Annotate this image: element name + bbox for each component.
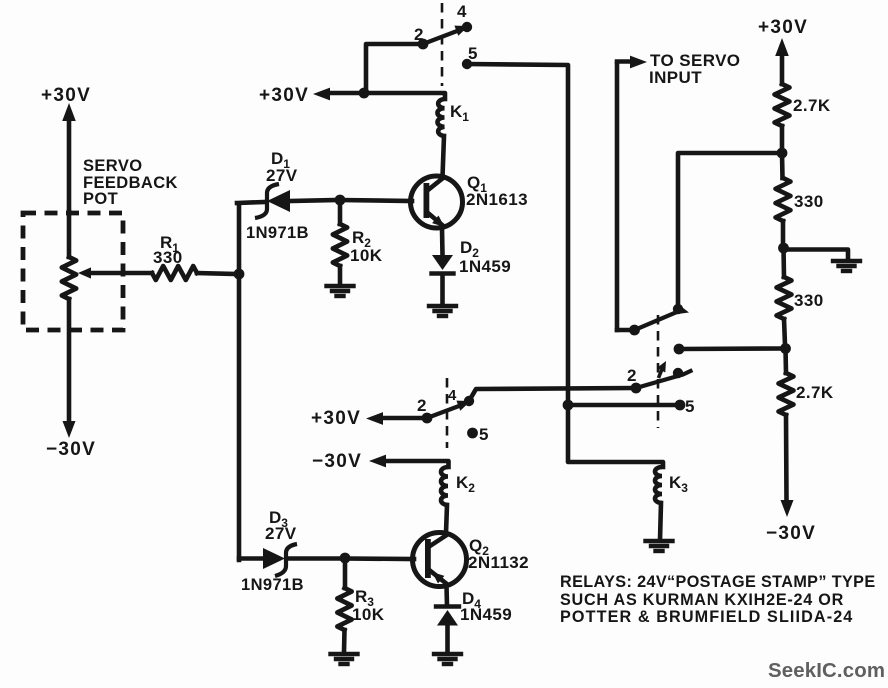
wire +30V to contact 2 (middle) — [382, 416, 427, 421]
svg-text:5: 5 — [479, 425, 489, 444]
wire node to 330 upper — [780, 153, 785, 178]
ground right divider — [833, 259, 860, 263]
relay coil K1 — [437, 99, 444, 136]
svg-text:−30V: −30V — [46, 439, 96, 460]
wire D4 to ground — [445, 625, 450, 653]
resistor R1 — [152, 266, 197, 280]
contact 2 (right switch) — [631, 383, 642, 394]
svg-text:+30V: +30V — [259, 85, 309, 106]
wire +30V line to K1 — [329, 93, 445, 99]
svg-text:2N1132: 2N1132 — [468, 553, 529, 572]
wire bus corner to D3 — [239, 556, 263, 561]
power +30V arrow left (K1 line) — [313, 88, 330, 101]
switch arm upper-right — [635, 312, 679, 331]
wire servo to pivot — [617, 328, 632, 333]
ground under D4 — [434, 652, 461, 656]
to servo input arrow — [617, 59, 632, 64]
svg-text:2: 2 — [627, 366, 637, 385]
dashed enclosure box (pot) — [23, 213, 123, 330]
svg-text:POT: POT — [83, 190, 118, 208]
contact 2 (middle switch) — [422, 413, 433, 424]
svg-text:2: 2 — [417, 396, 427, 415]
svg-text:2N1613: 2N1613 — [466, 190, 528, 209]
wire contact5 to right bus — [467, 64, 568, 405]
wire 330 to mid node — [781, 221, 786, 246]
transistor Q2 base bar — [425, 539, 431, 578]
svg-text:K2: K2 — [456, 473, 475, 495]
wire contact 5 left to bus — [568, 403, 680, 408]
svg-text:1N971B: 1N971B — [241, 576, 304, 594]
pot wiper arrow — [78, 267, 91, 278]
svg-text:2.7K: 2.7K — [796, 383, 834, 402]
switch arm 2-4 (middle) — [427, 405, 463, 419]
svg-text:SUCH AS KURMAN KXIH2E-24 OR: SUCH AS KURMAN KXIH2E-24 OR — [560, 591, 844, 609]
ground under R3 — [331, 652, 358, 656]
wire vertical bus up to D1 — [237, 204, 242, 274]
dashed actuator line (middle switch) — [446, 378, 449, 448]
wire pot bottom lead — [67, 299, 72, 422]
svg-text:1N971B: 1N971B — [246, 224, 309, 242]
relay coil K2 — [441, 467, 448, 505]
wire -30V to K2 — [385, 461, 449, 467]
ground under R2 — [327, 284, 354, 288]
contact 5 (middle switch) — [467, 428, 478, 439]
wire Q2 emitter to D4 — [444, 586, 449, 606]
wire D1 to R2 node — [289, 200, 337, 201]
transistor Q2 collector stroke — [430, 535, 448, 547]
wire R2 bottom lead — [338, 266, 343, 284]
node D1/R2 junction — [335, 195, 346, 206]
node divider mid junction — [778, 243, 789, 254]
switch actuator arrow (right) — [659, 367, 664, 379]
power +30V arrow left (middle) — [366, 412, 383, 425]
resistor 330 upper — [776, 178, 791, 221]
svg-text:1N459: 1N459 — [459, 257, 511, 276]
wire R2 top lead — [338, 200, 343, 224]
resistor 2.7K lower — [779, 373, 794, 415]
switch arm 2-4 (right) — [636, 371, 691, 388]
wire D3 to R3 node — [290, 556, 341, 561]
power +30V arrow up (divider) — [775, 38, 789, 56]
wire Q1 emitter to D2 — [440, 228, 445, 255]
transistor Q1 base bar — [424, 183, 430, 218]
wire K2 to Q2 collector — [446, 505, 447, 533]
wire 2.7K to node — [780, 126, 785, 150]
svg-text:10K: 10K — [350, 246, 383, 265]
transistor Q2 emitter stroke — [431, 571, 448, 585]
svg-text:27V: 27V — [265, 524, 297, 543]
svg-text:POTTER & BRUMFIELD SLIIDA-24: POTTER & BRUMFIELD SLIIDA-24 — [560, 608, 853, 626]
svg-text:330: 330 — [794, 291, 824, 310]
node +30V line junction — [359, 88, 370, 99]
wire servo line down — [615, 64, 620, 330]
resistor 330 lower — [777, 277, 792, 319]
wire R3 bottom lead — [342, 630, 347, 652]
wire contact2 to +30V line — [366, 44, 423, 92]
power -30V arrow down (divider) — [781, 500, 794, 517]
svg-text:2.7K: 2.7K — [793, 96, 831, 115]
svg-text:RELAYS: 24V“POSTAGE STAMP” TYP: RELAYS: 24V“POSTAGE STAMP” TYPE — [560, 573, 876, 591]
contact 4 (middle switch) — [464, 396, 474, 406]
resistor R2 — [333, 224, 347, 266]
contact 5 (right switch) — [675, 400, 686, 411]
wire pot top lead — [67, 212, 72, 257]
contact mid (right switch) — [674, 344, 685, 355]
zener D3 arrow (points right) — [263, 548, 285, 569]
svg-text:SeekIC.com: SeekIC.com — [768, 660, 885, 682]
resistor R3 — [337, 588, 351, 630]
contact 5 (top switch) — [462, 59, 472, 69]
svg-text:4: 4 — [457, 2, 467, 21]
wire K3 to ground — [660, 503, 661, 540]
svg-text:SERVO: SERVO — [83, 157, 142, 175]
wire D2 to ground — [440, 274, 445, 304]
contact 2 (top switch) — [418, 39, 429, 50]
pivot contact (upper right switch) — [629, 325, 640, 336]
wire base Q1 — [340, 200, 412, 201]
transistor Q2 circle — [413, 533, 467, 587]
svg-text:1N459: 1N459 — [460, 605, 512, 624]
potentiometer element — [62, 257, 76, 299]
relay coil K3 — [655, 467, 662, 503]
wire contact mid to divider node — [679, 346, 783, 351]
ground under D2 — [429, 304, 456, 308]
svg-text:+30V: +30V — [758, 17, 808, 38]
svg-text:−30V: −30V — [766, 523, 816, 544]
wire node to 2.7K lower — [783, 349, 788, 374]
node bus/contact5 junction — [563, 400, 574, 411]
transistor Q1 emitter stroke — [428, 213, 444, 227]
wire base Q2 — [345, 556, 414, 561]
node divider top junction — [777, 148, 788, 159]
resistor 2.7K upper — [775, 84, 790, 126]
svg-text:27V: 27V — [266, 166, 298, 185]
switch arm 2-4 (top) — [423, 30, 461, 45]
zener D1 arrow (points left) — [267, 190, 290, 212]
dashed actuator line (right switch) — [657, 315, 660, 428]
wire vertical bus down to D3 — [237, 274, 242, 560]
svg-text:K1: K1 — [450, 102, 469, 124]
wire K1 to Q1 collector — [443, 136, 445, 177]
contact to divider top (upper right switch) — [673, 304, 683, 314]
transistor Q1 circle — [411, 176, 463, 228]
wire R1 to bus node — [197, 273, 236, 274]
wire D1 line left — [237, 202, 264, 203]
wire mid node to ground — [784, 250, 849, 260]
node D3/R3 junction — [340, 553, 351, 564]
contact 4 (right switch) — [673, 368, 683, 378]
svg-text:330: 330 — [794, 192, 824, 211]
svg-text:K3: K3 — [669, 473, 688, 495]
wire R3 top lead — [343, 558, 348, 588]
svg-text:4: 4 — [448, 387, 457, 404]
dashed actuator line (top switch) — [441, 3, 444, 86]
transistor Q1 collector stroke — [428, 178, 443, 190]
wire bus down to K3 — [568, 405, 663, 467]
wire mid node to 330 lower — [781, 248, 786, 277]
contact 4 (top switch) — [462, 22, 472, 32]
wire contact up to divider node — [678, 153, 780, 309]
zener D3 cathode bar — [275, 544, 297, 576]
diode D2 (points down) — [432, 255, 453, 270]
svg-text:+30V: +30V — [41, 85, 91, 106]
power +30V arrow up (pot top) — [62, 103, 76, 121]
wire 2.7K lower down — [784, 415, 789, 501]
svg-text:INPUT: INPUT — [649, 68, 702, 87]
wire contact4 to right switch — [469, 388, 636, 401]
power -30V arrow down (pot bottom) — [63, 421, 76, 438]
node divider lower junction — [780, 343, 791, 354]
ground under K3 — [646, 539, 673, 543]
svg-text:10K: 10K — [352, 605, 385, 624]
svg-text:5: 5 — [685, 397, 695, 416]
power -30V arrow left (middle) — [369, 455, 386, 468]
node R1/bus junction — [234, 269, 245, 280]
wire 330 lower to node — [784, 319, 785, 345]
svg-text:+30V: +30V — [311, 408, 361, 429]
diode D4 (points up) — [436, 604, 459, 608]
svg-text:−30V: −30V — [312, 451, 362, 472]
zener D1 cathode bar — [255, 184, 279, 218]
